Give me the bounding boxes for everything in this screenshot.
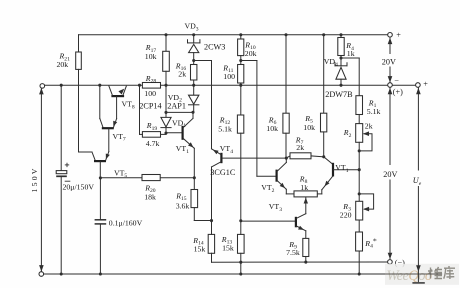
transistor VT5 (bottom of darlington chain) [79,152,110,178]
resistor R11 [238,65,244,86]
svg-text:(+): (+) [393,87,403,96]
svg-text:220: 220 [340,210,352,219]
node VD3 anode junction [192,59,195,62]
transistor VT1 (right) [317,157,359,194]
resistor R13 [238,221,245,274]
wire middle rail [45,84,416,86]
junction dots on top rail [164,33,342,36]
svg-text:18k: 18k [144,192,156,201]
resistor R4 [338,35,344,58]
wire R10/R11 junction to VT2 base riser [241,61,257,177]
node VT4 base / R6 / VT2 collector / R7 junction [285,157,288,160]
junction dots on output minus row [239,261,307,264]
label R13 15k [221,235,234,253]
wire bottom rail over watermark [385,273,442,275]
svg-text:10k: 10k [145,52,157,61]
diode VD1 [161,112,171,134]
label R11 100 [222,63,235,81]
label R16 2k [175,61,187,78]
potentiometer R8 1k [294,191,317,214]
svg-text:3.6k: 3.6k [176,202,190,211]
20V aux measurement arrow [388,38,393,83]
transistor VT4 3CG1C [212,149,287,221]
label R6 10k [266,115,278,133]
svg-text:1k: 1k [347,49,355,58]
wire R4 bottom branch to R1 column [341,58,359,96]
node R10/R11 junction [239,59,242,62]
svg-text:3CG1C: 3CG1C [210,168,236,177]
label R20 18k [144,183,156,201]
resistor R5 [321,35,327,157]
resistor R12 [237,85,243,221]
wire VD2 junction to VD1 column [166,111,193,113]
wire VT3 base row [241,220,295,222]
wire top rail [79,34,388,36]
svg-text:100: 100 [144,89,156,98]
terminal - of 150V input (open circle, bottom left) [39,272,44,277]
label R2 2k [343,121,373,139]
svg-text:100: 100 [223,72,235,81]
label R5 10k [303,114,315,132]
capacitor C2 0.1u/160V [95,178,107,274]
wire R28 left riser to R19 [139,85,141,134]
20V output measurement arrow [388,88,393,260]
wire VD3 anode to VT4 emitter riser [194,61,212,149]
svg-text:20k: 20k [245,49,257,58]
svg-text:20μ/150V: 20μ/150V [63,183,95,192]
resistor R4* [356,232,363,274]
potentiometer R3 220 [356,194,374,232]
label R8 1k [299,174,308,192]
svg-text:20V: 20V [383,170,397,179]
transistor VT3 [296,214,306,239]
svg-text:WeeQoo: WeeQoo [387,268,432,284]
resistor R10 [238,35,244,65]
node VD2 cathode junction [191,111,194,114]
junction dots on bottom rail [60,272,361,275]
label R14 15k [192,236,205,254]
resistor R20 [142,175,160,181]
svg-text:2k: 2k [296,143,304,152]
node VD1 cathode / VT1 base junction [164,131,167,134]
wire output minus row [212,261,388,263]
terminal minus of aux 20V on middle rail [388,83,393,88]
label R10 20k [244,40,256,58]
diode VD2 2AP1 [189,85,199,112]
svg-text:−: − [394,76,399,85]
svg-text:2k: 2k [178,69,186,78]
label R15 3.6k [175,191,189,210]
resistor R19 [140,132,167,138]
svg-text:2k: 2k [365,121,373,130]
svg-text:2CW3: 2CW3 [204,43,225,52]
transistor VT8 (bar with collector and emitter up to rail, base down) [109,86,126,119]
potentiometer R2 2k [356,124,372,151]
terminal + of 150V input (open circle, top left) [40,84,45,89]
label VD2 2AP1 [167,93,186,111]
wire bottom rail [44,273,442,275]
watermark box [385,264,459,285]
resistor R21 [76,35,82,152]
label R17 10k [145,43,157,61]
svg-text:1k: 1k [300,183,308,192]
svg-text:5.1k: 5.1k [367,107,381,116]
Ue measurement arrow [412,88,424,283]
resistor R9 [303,238,309,262]
svg-text:2DW7B: 2DW7B [325,90,353,99]
node R3 top junction [358,192,361,195]
resistor R15 [191,178,212,221]
label R7 2k [295,135,304,152]
terminal (-) of output [388,260,393,265]
resistor R6 [283,35,289,158]
node VT5 base junction [99,176,102,179]
svg-text:+: + [396,31,401,40]
transistor VT7 (middle of darlington chain) [100,85,117,151]
node R20 / VT1 emitter / R15 junction [193,176,196,179]
wire 150V measurement line with arrows [39,88,44,272]
label R3 220 [340,202,352,220]
terminal + of aux 20V (top right) [388,33,393,38]
svg-text:20V: 20V [382,57,396,66]
label R1 5.1k [367,98,381,116]
label R9 7.5k [286,240,300,257]
svg-text:150V: 150V [30,166,39,192]
svg-text:7.5k: 7.5k [286,248,300,257]
label R4 1k [345,41,354,58]
svg-text:10k: 10k [266,124,278,133]
resistor R17 [163,35,170,118]
svg-text:+: + [423,79,428,88]
svg-text:10k: 10k [303,123,315,132]
zener diode VD3 2CW3 [188,35,200,61]
label R19 4.7k [146,121,160,148]
wire R2 to R3 column [358,151,360,201]
node R7 / R5 / VT1 collector junction [322,155,325,158]
svg-text:0.1μ/160V: 0.1μ/160V [109,218,143,227]
svg-text:2CP14: 2CP14 [139,101,161,110]
svg-text:2AP1: 2AP1 [167,101,186,110]
terminal + of output (right end of middle rail) [416,83,421,88]
transistor VT1 (left, error amp) [166,112,194,178]
wire base row to R20 [100,177,194,179]
junction dots on middle rail [60,84,343,87]
node R4 bottom junction [339,56,342,59]
svg-text:5.1k: 5.1k [218,125,232,134]
node R15 / R14 / VT4 collector junction [210,219,213,222]
label R12 5.1k [218,115,232,133]
node R12 / R13 / VT3 base junction [239,219,242,222]
resistor R7 [286,153,323,159]
svg-text:15k: 15k [222,243,234,252]
transistor VT2 [257,158,294,194]
watermark CJK glyphs [428,266,455,279]
svg-text:4.7k: 4.7k [146,139,160,148]
node VT1 base junction [358,168,361,171]
svg-text:20k: 20k [57,60,69,69]
resistor R28 (in middle rail) [142,83,160,89]
resistor R1 [356,96,363,124]
node R2 bottom junction [358,149,361,152]
resistor R14 [208,221,214,263]
node VD1 top tee [164,111,167,114]
zener diode VD4 2DW7B [335,58,347,85]
capacitor C1 20u/150V electrolytic [56,85,70,274]
label R28 100 2CP14 [139,74,161,110]
label R21 20k [57,52,71,70]
resistor R16 [191,61,197,86]
svg-text:15k: 15k [194,244,206,253]
